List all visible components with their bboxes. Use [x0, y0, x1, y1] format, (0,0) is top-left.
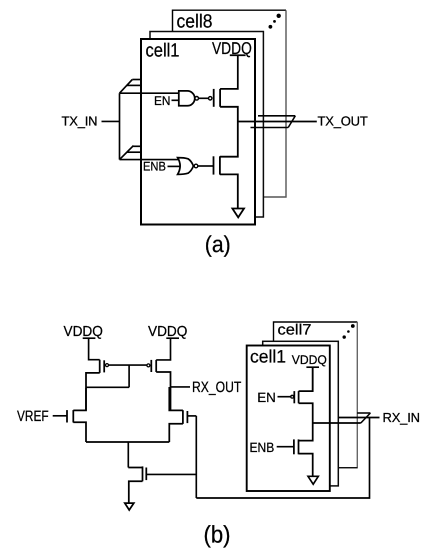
svg-text:ENB: ENB: [250, 440, 275, 455]
node wire / bus bottom edge (b): [313, 422, 361, 424]
pmos M4 right (b): gate on left: [147, 360, 171, 410]
svg-text:TX_OUT: TX_OUT: [318, 114, 368, 129]
VDDQ bar left: [83, 337, 96, 339]
gate interconnect wire (current mirror): [109, 364, 147, 366]
wire right gate to RX_IN net: [187, 415, 196, 417]
slab bottom fold diagonal: [120, 146, 134, 160]
wire EN to NAND: [172, 99, 179, 101]
VDDQ supply bar (a): [230, 54, 246, 56]
dots (b): [351, 324, 355, 328]
tail node vertical: [127, 442, 129, 468]
svg-text:RX_IN: RX_IN: [383, 410, 420, 425]
slab top edge / wire to NAND input: [120, 92, 179, 94]
mid rectangle (a): [150, 32, 263, 218]
svg-text:EN: EN: [154, 94, 171, 108]
wire VREF to gate: [53, 415, 67, 417]
wire VDDQ down to pmos: [312, 367, 314, 391]
svg-text:cell1: cell1: [250, 347, 286, 367]
slab bottom inner edge: [127, 151, 141, 153]
nmos M2 (a): [214, 122, 238, 209]
pmos M1 (a): [209, 89, 238, 122]
nmos M9 (b cell): [294, 423, 313, 476]
pmos M8 (b cell): [291, 367, 313, 423]
cell1 rectangle (b): [247, 346, 330, 492]
svg-text:TX_IN: TX_IN: [62, 114, 98, 129]
RX_IN bus parallelogram: [357, 413, 370, 423]
cell1 rectangle (a): [141, 39, 255, 225]
svg-text:EN: EN: [257, 390, 276, 405]
pmos M3 left (b): gate on right: [86, 360, 109, 388]
common source wire: [86, 441, 169, 443]
ground (a): [232, 209, 244, 218]
slab bottom edge / wire to NOR input: [120, 159, 183, 161]
slab top back edge: [132, 79, 141, 81]
slab top inner edge: [127, 84, 142, 86]
slab bottom back edge: [133, 145, 141, 147]
diode connection vertical: [128, 365, 130, 387]
svg-text:cell1: cell1: [146, 41, 180, 62]
svg-text:(a): (a): [205, 231, 231, 257]
RX_IN wire: [338, 417, 379, 419]
svg-text:cell8: cell8: [177, 12, 213, 33]
NAND gate U1: [179, 91, 195, 106]
NOR gate U2: [178, 158, 194, 175]
VDDQ bar right: [166, 337, 179, 339]
VDDQ bar (b cell): [306, 366, 319, 368]
input bus slab (3D plate) left of cell1: [120, 80, 183, 160]
slab front face left edge: [119, 93, 121, 159]
wire NOR output to NMOS gate: [198, 165, 214, 167]
wire tail gate to RX_IN net: [146, 473, 196, 475]
cell7 rectangle (back): [274, 322, 358, 468]
svg-text:VDDQ: VDDQ: [292, 353, 327, 367]
TX_OUT bus parallelogram: [251, 116, 296, 128]
dots (a): [277, 14, 281, 18]
ground (b diff pair): [125, 503, 134, 510]
wire NAND output to PMOS gate: [199, 97, 209, 99]
mid rectangle (b): [263, 341, 339, 486]
RX_IN net vertical: [195, 416, 197, 498]
wire left branch down: [85, 387, 87, 410]
bottom wire RX_IN net: [196, 418, 369, 499]
slab top fold diagonal: [120, 80, 133, 94]
RX_OUT stub: [171, 386, 191, 388]
wire VDDQ-R down: [156, 338, 170, 360]
wire TX_IN to slab: [102, 120, 120, 122]
svg-text:cell7: cell7: [278, 321, 312, 338]
nmos M6 right (b): mirrored, gate on right: [169, 387, 187, 442]
svg-text:(b): (b): [204, 521, 231, 548]
ground (b cell): [308, 476, 318, 484]
wire ENB to nmos gate: [277, 446, 294, 448]
wire EN to pmos gate: [278, 396, 291, 398]
wire ENB to NOR: [168, 165, 181, 167]
cell8 rectangle (back): [173, 10, 287, 197]
wire VDDQ to PMOS source: [220, 55, 238, 89]
nmos M7 tail (b): gate on right: [128, 466, 146, 503]
nmos M5 left (b): [67, 387, 86, 442]
svg-text:RX_OUT: RX_OUT: [192, 379, 241, 396]
output node wire to TX_OUT: [238, 121, 317, 123]
svg-text:VREF: VREF: [17, 408, 49, 425]
svg-text:ENB: ENB: [143, 160, 166, 174]
left drain wire: [86, 386, 129, 388]
wire VDDQ-L down: [89, 338, 100, 360]
